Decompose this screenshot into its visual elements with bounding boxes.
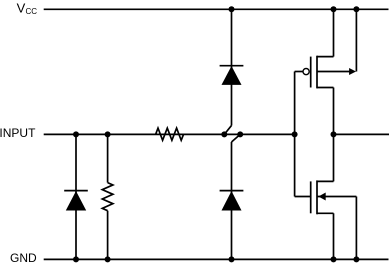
svg-text:V: V xyxy=(17,1,26,16)
svg-text:GND: GND xyxy=(10,251,37,265)
svg-text:CC: CC xyxy=(26,7,38,16)
svg-text:INPUT: INPUT xyxy=(0,126,36,140)
